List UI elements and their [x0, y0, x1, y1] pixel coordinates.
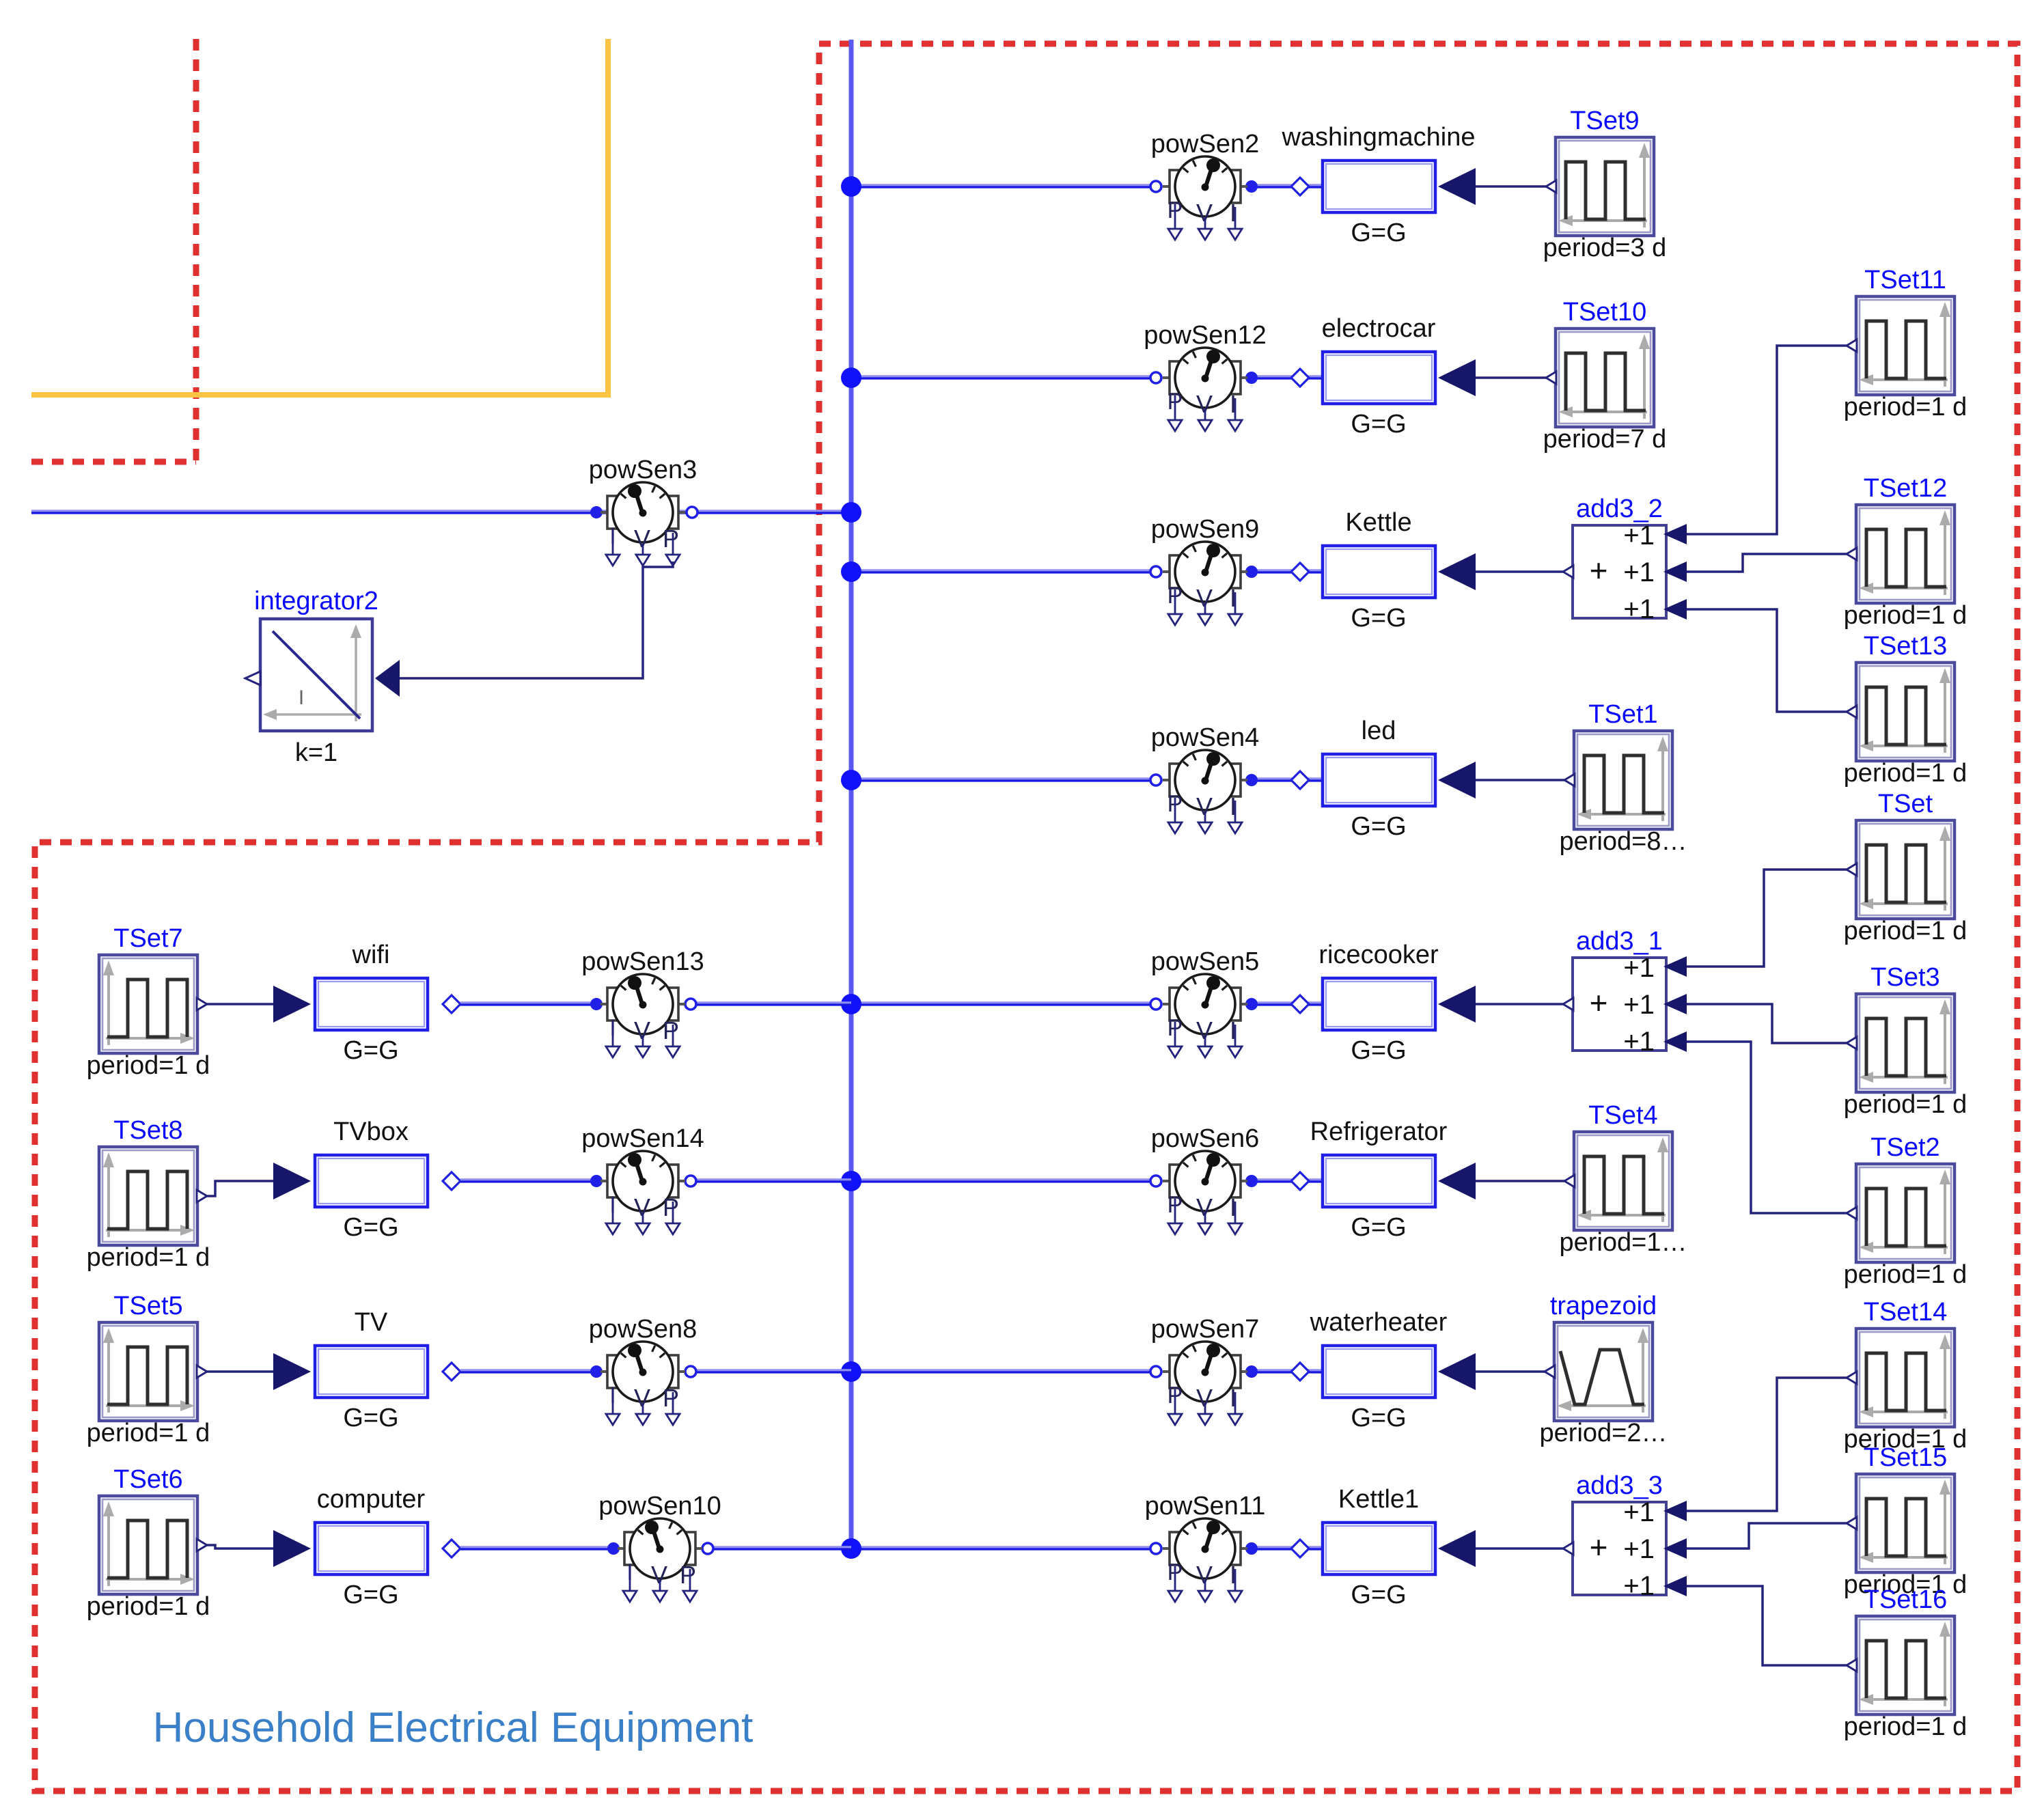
- svg-text:G=G: G=G: [343, 1036, 398, 1065]
- svg-text:powSen6: powSen6: [1151, 1124, 1259, 1153]
- svg-text:period=1 d: period=1 d: [1844, 393, 1967, 421]
- svg-text:TSet6: TSet6: [113, 1465, 182, 1494]
- svg-text:TV: TV: [355, 1308, 388, 1337]
- svg-text:+: +: [1590, 553, 1608, 588]
- svg-text:period=1 d: period=1 d: [1844, 1260, 1967, 1289]
- svg-text:period=1…: period=1…: [1560, 1228, 1687, 1257]
- svg-text:TSet12: TSet12: [1864, 474, 1948, 503]
- svg-text:P: P: [663, 525, 679, 553]
- svg-text:period=1 d: period=1 d: [1844, 601, 1967, 630]
- svg-text:TSet8: TSet8: [113, 1116, 182, 1145]
- svg-text:powSen11: powSen11: [1145, 1492, 1266, 1521]
- svg-text:+1: +1: [1623, 520, 1655, 551]
- svg-text:Kettle: Kettle: [1345, 508, 1411, 537]
- svg-text:+1: +1: [1623, 953, 1655, 983]
- svg-text:add3_3: add3_3: [1576, 1471, 1663, 1500]
- svg-text:Kettle1: Kettle1: [1338, 1485, 1419, 1514]
- svg-text:TSet13: TSet13: [1864, 632, 1948, 661]
- svg-text:+1: +1: [1623, 1571, 1655, 1601]
- svg-text:powSen4: powSen4: [1151, 723, 1259, 752]
- svg-text:+1: +1: [1623, 990, 1655, 1020]
- svg-text:powSen12: powSen12: [1144, 321, 1267, 350]
- svg-text:P: P: [663, 1193, 679, 1221]
- svg-text:G=G: G=G: [1351, 1404, 1406, 1432]
- svg-text:+: +: [1590, 985, 1608, 1020]
- svg-text:TSet16: TSet16: [1864, 1585, 1948, 1614]
- svg-text:TSet9: TSet9: [1570, 107, 1639, 135]
- svg-text:period=1 d: period=1 d: [1844, 1090, 1967, 1119]
- svg-text:TSet11: TSet11: [1864, 266, 1946, 294]
- svg-text:ricecooker: ricecooker: [1318, 941, 1439, 969]
- svg-text:powSen3: powSen3: [589, 456, 697, 484]
- svg-text:Refrigerator: Refrigerator: [1310, 1117, 1448, 1146]
- svg-text:add3_1: add3_1: [1576, 927, 1663, 956]
- svg-text:period=1 d: period=1 d: [87, 1051, 210, 1080]
- svg-text:powSen2: powSen2: [1151, 130, 1259, 158]
- svg-text:I: I: [299, 686, 304, 709]
- svg-text:waterheater: waterheater: [1310, 1308, 1448, 1337]
- svg-text:+1: +1: [1623, 1497, 1655, 1527]
- svg-text:G=G: G=G: [343, 1213, 398, 1242]
- svg-text:TSet: TSet: [1878, 790, 1933, 818]
- svg-text:integrator2: integrator2: [254, 587, 378, 615]
- svg-text:P: P: [663, 1016, 679, 1044]
- svg-text:Household Electrical Equipment: Household Electrical Equipment: [153, 1704, 754, 1751]
- svg-text:+1: +1: [1623, 594, 1655, 624]
- svg-text:powSen7: powSen7: [1151, 1315, 1259, 1344]
- svg-text:powSen8: powSen8: [589, 1315, 697, 1344]
- svg-text:G=G: G=G: [1351, 410, 1406, 439]
- svg-text:electrocar: electrocar: [1322, 314, 1436, 343]
- svg-text:TSet14: TSet14: [1864, 1298, 1948, 1327]
- svg-text:TSet5: TSet5: [113, 1292, 182, 1320]
- svg-text:trapezoid: trapezoid: [1550, 1292, 1657, 1320]
- svg-text:+1: +1: [1623, 1027, 1655, 1057]
- svg-text:period=1 d: period=1 d: [1844, 1712, 1967, 1741]
- svg-text:TVbox: TVbox: [333, 1117, 409, 1146]
- svg-text:k=1: k=1: [295, 738, 337, 767]
- svg-text:period=3 d: period=3 d: [1543, 234, 1667, 262]
- svg-text:period=1 d: period=1 d: [1844, 917, 1967, 945]
- svg-text:period=8…: period=8…: [1560, 827, 1687, 856]
- svg-text:washingmachine: washingmachine: [1281, 123, 1475, 152]
- svg-text:add3_2: add3_2: [1576, 495, 1663, 523]
- svg-text:powSen13: powSen13: [581, 947, 704, 976]
- svg-text:period=1 d: period=1 d: [1844, 759, 1967, 788]
- svg-text:powSen5: powSen5: [1151, 947, 1259, 976]
- svg-text:led: led: [1362, 717, 1396, 745]
- svg-text:G=G: G=G: [343, 1581, 398, 1609]
- svg-text:TSet1: TSet1: [1588, 700, 1657, 729]
- svg-text:G=G: G=G: [1351, 1213, 1406, 1242]
- svg-text:powSen10: powSen10: [598, 1492, 721, 1521]
- svg-text:powSen9: powSen9: [1151, 515, 1259, 544]
- svg-text:period=2…: period=2…: [1540, 1419, 1668, 1447]
- svg-text:powSen14: powSen14: [581, 1124, 704, 1153]
- svg-text:G=G: G=G: [1351, 812, 1406, 841]
- svg-text:G=G: G=G: [343, 1404, 398, 1432]
- svg-text:TSet10: TSet10: [1563, 298, 1647, 327]
- svg-text:+1: +1: [1623, 1534, 1655, 1564]
- svg-text:P: P: [680, 1561, 696, 1589]
- svg-text:TSet7: TSet7: [113, 924, 182, 953]
- svg-text:wifi: wifi: [352, 941, 390, 969]
- svg-text:period=1 d: period=1 d: [87, 1419, 210, 1447]
- svg-text:period=1 d: period=1 d: [87, 1592, 210, 1621]
- svg-text:TSet3: TSet3: [1870, 963, 1939, 992]
- svg-text:TSet4: TSet4: [1588, 1101, 1657, 1130]
- svg-text:TSet15: TSet15: [1864, 1443, 1948, 1472]
- svg-text:G=G: G=G: [1351, 219, 1406, 247]
- svg-text:period=1 d: period=1 d: [87, 1243, 210, 1272]
- svg-text:computer: computer: [317, 1485, 426, 1514]
- svg-text:TSet2: TSet2: [1870, 1133, 1939, 1162]
- svg-text:G=G: G=G: [1351, 604, 1406, 633]
- svg-text:G=G: G=G: [1351, 1036, 1406, 1065]
- svg-text:G=G: G=G: [1351, 1581, 1406, 1609]
- svg-text:period=7 d: period=7 d: [1543, 425, 1667, 454]
- svg-text:+1: +1: [1623, 557, 1655, 587]
- svg-text:+: +: [1590, 1529, 1608, 1565]
- svg-text:P: P: [663, 1384, 679, 1412]
